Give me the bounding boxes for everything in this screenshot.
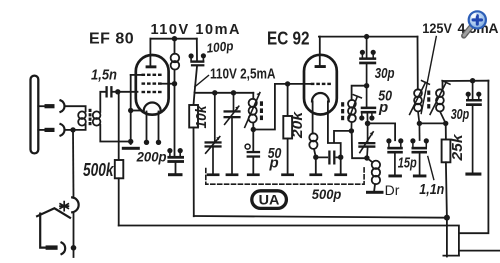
wire rail corner to IF transformer <box>417 37 419 90</box>
node g2 <box>172 81 177 86</box>
svg-text:110V 2,5mA: 110V 2,5mA <box>210 65 276 82</box>
wire R4 to line A node <box>446 162 447 217</box>
node osc link <box>364 83 369 88</box>
asterisk mark <box>60 202 68 211</box>
wire choke to g2 node <box>174 70 176 84</box>
IF transformer T2 secondary <box>430 81 450 124</box>
wire grid junction to EF80 g1 <box>118 91 138 93</box>
wire dipole lower stub <box>38 129 45 131</box>
node 500p left <box>313 155 318 160</box>
dipole antenna <box>31 76 39 154</box>
wire osc coil link <box>352 86 367 100</box>
U1 heater lead right <box>158 112 160 141</box>
U1 cathode <box>144 103 161 112</box>
wire 15p link from trimmer junction <box>368 123 396 140</box>
svg-text:EC 92: EC 92 <box>267 28 310 49</box>
wire T2 bottoms link <box>419 122 445 124</box>
svg-text:EF 80: EF 80 <box>89 31 134 48</box>
magnifier cursor icon <box>464 11 486 36</box>
ground G1 <box>122 147 140 150</box>
wire U1 cathode exit <box>131 110 140 112</box>
wire primary bottom to junction A <box>73 125 86 130</box>
T2 core <box>427 91 430 109</box>
wire line A <box>194 216 447 218</box>
node V1 tap <box>212 90 217 95</box>
wire node to tick right <box>340 157 342 173</box>
U2 cathode <box>312 93 329 101</box>
wire J1 to transformer primary <box>65 106 86 111</box>
resistor R1 500k <box>115 160 124 178</box>
svg-text:p: p <box>378 99 388 116</box>
wire U1 g3 lead left <box>131 74 142 76</box>
wire screen rail right <box>195 92 254 94</box>
tube U2 EC92 envelope <box>304 55 337 115</box>
node line A output <box>444 215 450 221</box>
wire EC92 anode rail <box>319 36 418 38</box>
transformer T1 core <box>89 109 92 125</box>
wire top rail 110V <box>150 38 196 40</box>
node C14 tap <box>470 78 475 83</box>
variable inductor L3 <box>245 93 263 130</box>
capacitor C9 50p <box>359 86 376 124</box>
U1 heater terminal left <box>144 140 149 145</box>
node V2 tap <box>231 90 236 95</box>
wire line B <box>119 226 459 256</box>
coil L5 cathode <box>309 133 317 141</box>
node A (junction dot) <box>70 127 75 132</box>
logo UA <box>252 191 287 209</box>
node C10 bottom <box>364 155 369 160</box>
wire dipole upper stub <box>38 105 45 107</box>
svg-text:1,1n: 1,1n <box>419 181 444 198</box>
plug P3 <box>46 245 58 249</box>
wire T2 secondary top to 30p <box>443 80 489 82</box>
node 500p right <box>338 155 343 160</box>
capacitor C13 1,1n <box>410 123 429 174</box>
svg-text:200p: 200p <box>136 149 167 165</box>
wire output lower right <box>459 250 500 252</box>
U2 cathode lead left <box>312 101 314 133</box>
wire g3 column down <box>130 75 132 144</box>
wire L5 to node <box>314 149 316 157</box>
capacitor C11 500p <box>316 152 341 164</box>
svg-text:p: p <box>269 155 279 172</box>
ground tick L5 <box>309 173 322 176</box>
wire output crossbar <box>443 255 459 257</box>
svg-text:10k: 10k <box>193 105 210 129</box>
capacitor C1 1,5n <box>107 87 112 96</box>
aux antenna symbol <box>37 208 70 247</box>
wire node to tick left <box>315 157 317 173</box>
wire R2 down to line A <box>193 128 195 217</box>
node grid1 junction <box>115 89 120 94</box>
svg-text:1,5n: 1,5n <box>91 67 117 84</box>
node choke tap <box>172 36 177 41</box>
U1 heater lead left <box>146 112 148 141</box>
ground tick V2 <box>226 173 239 176</box>
capacitor C7 50p <box>245 144 260 158</box>
plug P1 <box>45 104 55 108</box>
choke Dr <box>367 158 380 191</box>
socket J3 <box>62 243 66 255</box>
node U1 cathode/g3 <box>128 108 133 113</box>
wire osc bottom to Dr junction <box>352 131 367 158</box>
wire output stem <box>446 218 448 257</box>
svg-text:UA: UA <box>259 192 280 208</box>
wire right branch down <box>459 81 489 234</box>
resistor R3 20k <box>287 84 289 116</box>
transformer T1 primary winding <box>78 111 86 119</box>
svg-text:100p: 100p <box>206 38 234 56</box>
node T2 primary bottom <box>417 121 422 126</box>
resistor R4 25k <box>445 123 447 139</box>
node 30p chain tap <box>364 34 369 39</box>
ground G4 <box>465 173 481 176</box>
U2 grid <box>311 83 331 85</box>
U1 grid g2 <box>142 82 162 84</box>
wire R3 to tick <box>287 139 289 174</box>
node L3 bottom <box>251 127 256 132</box>
ground tick 500p <box>334 173 347 176</box>
oscillator coil L4 <box>341 95 361 131</box>
wire J2 to junction A <box>65 129 73 131</box>
resistor R2 10k <box>189 105 198 128</box>
wire R1 to bottom rail B <box>118 178 120 225</box>
socket J4 on main wire <box>72 197 78 212</box>
svg-text:Dr: Dr <box>385 182 400 198</box>
dashed shield box <box>206 166 364 185</box>
capacitor C14 30p <box>466 81 482 173</box>
ground tick V1 <box>207 173 220 176</box>
svg-text:125V: 125V <box>422 20 452 36</box>
leader 1,1n <box>428 157 434 180</box>
U2 cathode lead right <box>328 101 352 157</box>
svg-text:30p: 30p <box>451 106 470 123</box>
node bottom socket dot <box>71 245 77 251</box>
ground G2 <box>168 173 183 176</box>
wire junction A down to aux input <box>72 130 75 198</box>
U2 anode plate <box>315 65 326 68</box>
wire C1 to grid junction <box>111 91 117 93</box>
svg-text:500k: 500k <box>83 160 114 180</box>
wire U2 grid lead <box>288 83 311 85</box>
IF transformer T2 primary <box>410 81 430 124</box>
node T2 secondary bottom <box>443 121 448 126</box>
wire U2 anode to rail <box>319 37 321 66</box>
node transformer return <box>128 139 133 144</box>
ground tick C12 <box>388 175 402 178</box>
wire secondary bottom to ground <box>100 125 130 142</box>
ground G3 Dr <box>366 191 384 194</box>
ground tick C13 <box>413 175 427 178</box>
wire secondary top to C1 <box>100 92 105 112</box>
leader 125V <box>421 37 436 114</box>
wire g2 node down to C3 <box>174 84 176 156</box>
U1 grid g3 <box>142 74 162 76</box>
plug P2 <box>45 128 55 132</box>
svg-text:25k: 25k <box>449 134 466 162</box>
capacitor C12 15p <box>386 138 403 174</box>
wire grid junction down to R1 <box>118 92 120 160</box>
transformer T1 secondary winding <box>93 111 101 119</box>
wire L3 bottom to EC92 grid column <box>253 84 287 130</box>
svg-text:500p: 500p <box>312 186 342 202</box>
wire C7 to tick <box>252 158 254 174</box>
svg-text:15p: 15p <box>398 154 417 171</box>
node U2 grid <box>285 81 290 86</box>
node C9 bottom <box>365 121 371 127</box>
svg-text:20k: 20k <box>289 111 306 139</box>
ground tick C7 <box>247 173 260 176</box>
node osc coil bottom <box>349 128 354 133</box>
U1 anode plate <box>146 65 157 68</box>
socket J2 <box>61 124 65 136</box>
wire U1 anode to top rail <box>149 39 151 66</box>
U1 heater terminal right <box>156 140 161 145</box>
capacitor C2 100p <box>189 53 206 66</box>
trimmer capacitor C10 <box>358 123 375 158</box>
capacitor C8 30p <box>359 37 376 86</box>
variable capacitor V2 <box>224 93 241 174</box>
capacitor C3 200p <box>167 148 184 163</box>
wire U1 g2 lead right <box>162 83 175 85</box>
ground tick R3 <box>281 173 294 176</box>
socket J1 <box>61 100 65 112</box>
wire below J4 <box>73 212 75 257</box>
leader 110V 2,5mA <box>195 76 209 87</box>
variable capacitor V1 <box>205 93 222 174</box>
svg-text:30p: 30p <box>375 65 395 82</box>
U1 grid g1 <box>142 91 162 93</box>
wire rail corner down through C2 <box>194 39 198 105</box>
choke L2 <box>174 39 176 54</box>
svg-text:110V 10mA: 110V 10mA <box>151 22 241 38</box>
wire C3 to ground <box>175 163 177 174</box>
tube U1 EF80 envelope <box>136 55 169 115</box>
wire L3 to C7 <box>252 130 254 151</box>
